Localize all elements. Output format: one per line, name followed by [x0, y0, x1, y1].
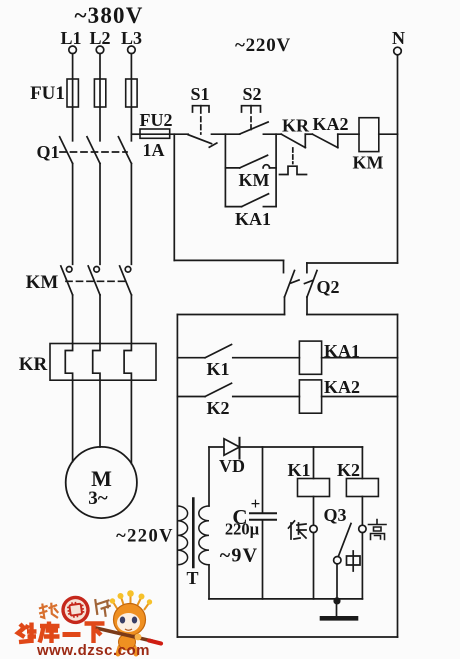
wire L3 to FU2 — [131, 133, 140, 135]
KR heater pole 1 — [65, 344, 72, 381]
KA1 contact — [225, 194, 276, 229]
svg-text:FU1: FU1 — [30, 83, 65, 104]
lower box right rail — [397, 315, 399, 638]
coil KA2 — [299, 377, 397, 413]
switch Q1 pole 2 — [87, 137, 100, 264]
svg-text:T: T — [186, 568, 198, 588]
K2 contact — [177, 383, 299, 418]
node N — [392, 28, 405, 55]
diode VD — [219, 438, 245, 476]
coil K1 — [287, 447, 329, 525]
lower box left rail — [176, 315, 178, 638]
svg-text:www.dzsc.com: www.dzsc.com — [36, 642, 150, 659]
KM holding branch right rail — [275, 134, 277, 206]
terminal low — [310, 525, 317, 532]
coil KM — [353, 118, 384, 173]
wire below low terminal — [313, 533, 315, 599]
N rail horizontal to Q2 — [307, 262, 398, 264]
N rail down — [397, 55, 399, 263]
drop wire from FU2 node — [173, 134, 175, 260]
svg-text:N: N — [392, 28, 405, 48]
svg-text:~220V: ~220V — [116, 527, 174, 547]
wire FU2 to S1 — [170, 133, 189, 135]
ground — [322, 601, 356, 618]
inner box top wire left — [209, 446, 224, 448]
Q1 linkage dashed — [60, 151, 127, 153]
thermal relay KR box — [50, 344, 156, 381]
svg-text:L2: L2 — [89, 28, 110, 48]
svg-text:L3: L3 — [121, 28, 142, 48]
coil K2 — [337, 447, 378, 525]
svg-text:+: + — [251, 494, 261, 513]
wire to motor 2 — [99, 380, 101, 447]
motor M — [66, 447, 137, 518]
fuse FU2 — [140, 110, 173, 160]
wire to motor 1 — [72, 380, 74, 461]
KR heater pole 3 — [124, 344, 131, 381]
svg-text:K1: K1 — [287, 460, 310, 480]
KA2 contact — [312, 114, 348, 148]
KM auxiliary contact — [225, 155, 276, 190]
capacitor C branch — [225, 447, 276, 599]
coil KA1 — [299, 341, 397, 374]
svg-text:KA1: KA1 — [324, 341, 360, 361]
K1 contact — [177, 345, 299, 380]
watermark stamp find-chip — [37, 591, 112, 629]
node L3 — [121, 28, 142, 54]
wire KM coil to N — [379, 133, 398, 135]
lower box top edge left — [177, 314, 284, 316]
svg-text:~220V: ~220V — [235, 35, 291, 56]
wire S2 right to KR — [263, 133, 281, 135]
KM main contact pole 1 — [61, 266, 73, 344]
svg-text:KA1: KA1 — [235, 209, 271, 229]
glyph high (CJK) — [369, 520, 387, 540]
glyph middle (CJK) — [347, 551, 361, 571]
svg-text:KA2: KA2 — [313, 114, 349, 134]
node L1 — [60, 28, 81, 54]
svg-text:Q1: Q1 — [36, 142, 59, 162]
junction dot — [333, 597, 340, 604]
wire L1 down to Q1 — [72, 54, 74, 141]
svg-text:1A: 1A — [143, 140, 165, 160]
svg-text:KA2: KA2 — [324, 377, 360, 397]
selector Q3 — [323, 505, 351, 601]
pushbutton S1 — [188, 84, 217, 147]
watermark glyph pian — [95, 597, 112, 618]
wire to motor 3 — [130, 380, 132, 463]
svg-text:220µ: 220µ — [225, 520, 260, 539]
svg-text:3~: 3~ — [88, 488, 108, 509]
wire L3 down to Q1 — [130, 54, 132, 141]
KM main linkage dashed — [66, 280, 128, 282]
lower box top edge right — [307, 314, 398, 316]
watermark mascot — [96, 590, 161, 654]
svg-text:S1: S1 — [190, 84, 209, 104]
svg-text:KM: KM — [239, 170, 270, 190]
switch Q1 pole 3 — [118, 137, 131, 264]
inner box right rail lower — [361, 533, 363, 599]
svg-text:KM: KM — [26, 272, 59, 293]
fuse FU1 pole 1 — [67, 79, 78, 107]
inner box left rail (secondary) — [208, 447, 210, 599]
glyph low (CJK) — [289, 521, 307, 539]
terminal high — [359, 525, 366, 532]
svg-text:VD: VD — [219, 456, 245, 476]
KM main contact pole 3 — [120, 266, 132, 344]
svg-text:K2: K2 — [206, 398, 229, 418]
svg-text:Q2: Q2 — [316, 277, 339, 297]
svg-text:FU2: FU2 — [140, 110, 173, 130]
KR heater pole 2 — [93, 344, 100, 381]
watermark text weiku — [18, 622, 105, 644]
KM holding branch left rail — [224, 134, 226, 206]
svg-text:L1: L1 — [60, 28, 81, 48]
svg-text:KR: KR — [19, 354, 48, 375]
switch Q2 — [284, 260, 340, 314]
watermark red chip logo — [59, 594, 91, 626]
svg-text:~380V: ~380V — [74, 3, 143, 28]
inner box bottom edge — [209, 598, 362, 600]
svg-text:S2: S2 — [242, 84, 261, 104]
svg-text:KM: KM — [353, 153, 384, 173]
inner box top wire right — [240, 446, 363, 448]
wire S1 to S2 — [212, 133, 240, 135]
KM main contact pole 2 — [88, 266, 100, 344]
svg-text:Q3: Q3 — [323, 505, 346, 525]
node L2 — [89, 28, 110, 54]
KR NC contact — [280, 116, 313, 175]
svg-text:K2: K2 — [337, 460, 360, 480]
wire L2 down to Q1 — [99, 54, 101, 141]
wire drop to Q2 — [174, 259, 283, 261]
lower box bottom edge — [177, 636, 397, 638]
pushbutton S2 — [240, 84, 268, 134]
transformer T — [116, 499, 209, 589]
wire KA2 to KM coil — [338, 133, 359, 135]
fuse FU1 pole 2 — [94, 79, 105, 107]
svg-text:KR: KR — [282, 116, 310, 136]
svg-text:~9V: ~9V — [220, 545, 258, 567]
svg-text:K1: K1 — [206, 359, 229, 379]
switch Q1 pole 1 — [60, 137, 73, 264]
fuse FU1 pole 3 — [126, 79, 137, 107]
